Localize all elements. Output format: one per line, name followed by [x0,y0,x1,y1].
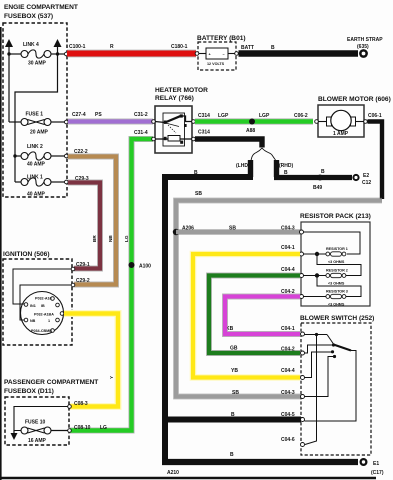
wire PS purple fuse1 to relay [68,112,153,122]
svg-text:FUSE 10: FUSE 10 [25,420,46,426]
svg-text:1 AMP: 1 AMP [333,131,349,137]
node A206 [173,226,194,236]
svg-text:RESISTOR 3: RESISTOR 3 [326,290,348,294]
passenger compartment fusebox D11 [4,379,107,445]
svg-text:<3 OHMS: <3 OHMS [328,260,345,264]
wire LGP green relay to blower motor [195,113,313,122]
svg-text:BATTERY (B01): BATTERY (B01) [197,35,246,42]
wire B relay output black [195,130,262,148]
svg-text:P032-A16: P032-A16 [35,297,52,301]
svg-text:SB: SB [195,191,202,197]
node B49 [313,175,323,192]
wire KB magenta resistor pack to blower switch [225,289,300,334]
svg-text:BR: BR [92,235,97,242]
svg-text:BATT: BATT [241,45,254,51]
ignition switch 506 [3,251,75,345]
svg-text:1: 1 [48,319,50,323]
svg-text:P032-A1BA: P032-A1BA [34,313,54,317]
fuse FUSE 1 [9,112,68,136]
feed arrow 2 [54,39,62,54]
svg-text:C31-2: C31-2 [134,112,148,118]
page bottom border [0,477,376,479]
svg-text:40 AMP: 40 AMP [27,192,46,198]
svg-text:YB: YB [231,368,238,374]
svg-text:LG: LG [124,235,129,242]
svg-text:IN1: IN1 [30,304,36,308]
svg-text:C04-3: C04-3 [281,390,295,396]
svg-text:BLOWER MOTOR (606): BLOWER MOTOR (606) [318,96,391,103]
svg-text:40 AMP: 40 AMP [27,162,46,168]
svg-text:(RHD): (RHD) [279,163,293,169]
svg-text:E1: E1 [373,461,379,467]
fusible link LINK 4 [7,42,68,67]
fusebox feed2 wire [15,54,58,182]
svg-text:PS: PS [95,112,102,118]
engine compartment fusebox S37 box [3,4,78,197]
svg-text:PASSENGER COMPARTMENT: PASSENGER COMPARTMENT [4,379,98,386]
fusible link LINK 1 [15,175,68,198]
svg-text:LGP: LGP [218,113,229,119]
svg-text:30 AMP: 30 AMP [28,61,47,67]
svg-text:A210: A210 [167,470,179,476]
wire B RHD branch to E2 [274,160,352,178]
fusible link LINK 2 [15,144,68,168]
svg-text:A100: A100 [139,264,151,270]
svg-text:LINK 2: LINK 2 [27,144,43,150]
svg-text:LINK 4: LINK 4 [23,42,39,48]
node A88 [246,119,255,135]
svg-text:RESISTOR PACK (213): RESISTOR PACK (213) [300,213,371,220]
svg-text:B: B [230,452,234,458]
svg-text:NB: NB [108,235,113,242]
svg-text:FUSEBOX (D11): FUSEBOX (D11) [4,388,54,395]
svg-text:RESISTOR 1: RESISTOR 1 [326,247,348,251]
svg-text:C08-10: C08-10 [74,425,91,431]
svg-text:BLOWER SWITCH (252): BLOWER SWITCH (252) [300,315,374,322]
LHD RHD option split [236,148,293,169]
wire Y yellow ignition to passenger fusebox [64,314,118,407]
svg-text:P034-CBMB: P034-CBMB [31,329,52,333]
feed arrow 1 [5,39,13,54]
svg-text:IGNITION (506): IGNITION (506) [3,251,50,258]
svg-text:(C17): (C17) [371,470,384,476]
wire SB gray main [176,191,382,397]
svg-text:NB: NB [30,319,36,323]
battery B01 [195,35,245,70]
svg-text:A88: A88 [246,128,255,134]
svg-text:C100-1: C100-1 [69,44,86,50]
svg-text:IB: IB [41,304,45,308]
svg-text:(635): (635) [357,44,369,50]
svg-text:C06-2: C06-2 [294,113,308,119]
blower switch 252 [281,315,374,455]
svg-text:C314: C314 [198,113,210,119]
wire B blower motor to SB run [368,122,383,200]
svg-text:20 AMP: 20 AMP [30,130,49,136]
svg-text:C06-1: C06-1 [368,113,382,119]
wire GB dark green resistor pack to blower switch [209,267,300,353]
svg-text:C04-6: C04-6 [281,437,295,443]
svg-text:RELAY (766): RELAY (766) [155,95,194,102]
svg-text:LGP: LGP [259,113,270,119]
svg-text:<3 OHMS: <3 OHMS [328,303,345,307]
svg-text:C04-4: C04-4 [281,267,295,273]
svg-text:FUSEBOX (537): FUSEBOX (537) [4,13,53,20]
ground E1 C17 ring terminal [360,458,384,476]
fusebox internal bus wire [8,54,10,122]
wire NB tan link2 to ignition [68,149,116,285]
svg-text:C12: C12 [362,180,371,186]
svg-text:FUSE 1: FUSE 1 [26,112,44,118]
svg-text:C04-4: C04-4 [281,368,295,374]
svg-text:12 VOLTS: 12 VOLTS [207,62,225,66]
node LINK2 junction [13,154,16,157]
svg-text:B49: B49 [313,185,322,191]
wire SB branch to resistor pack [176,226,301,233]
wire B LHD branch to main ground run [162,160,253,462]
wire BR maroon link1 to ignition [68,176,100,269]
svg-text:C08-3: C08-3 [74,401,88,407]
node A100 [129,262,152,270]
svg-text:LG: LG [100,425,107,431]
ground E2 C12 ring terminal [352,173,371,186]
page left border [0,27,2,480]
resistor pack 213 [300,213,371,307]
earth strap G35 ring terminal [347,37,383,58]
svg-text:B: B [321,169,325,175]
svg-text:C31-4: C31-4 [134,130,148,136]
svg-text:SB: SB [232,390,239,396]
svg-text:16 AMP: 16 AMP [28,438,47,444]
svg-text:R: R [110,44,114,50]
svg-text:C180-1: C180-1 [171,44,188,50]
wire SB label at blower switch [232,390,295,396]
heater motor relay 766 [152,87,208,153]
svg-text:C27-4: C27-4 [72,112,86,118]
svg-text:+: + [209,53,211,57]
svg-text:EARTH STRAP: EARTH STRAP [347,37,383,43]
svg-text:ENGIE COMPARTMENT: ENGIE COMPARTMENT [4,4,78,11]
wire R red battery feed [67,44,196,54]
svg-text:C04-1: C04-1 [281,245,295,251]
svg-text:HEATER MOTOR: HEATER MOTOR [155,87,208,94]
svg-text:<3 OHMS: <3 OHMS [328,282,345,286]
svg-text:E2: E2 [363,173,369,179]
wire B battery to earth strap [239,45,359,54]
wire LG green vertical from passenger fusebox to relay [70,130,153,431]
svg-text:C314: C314 [198,130,210,136]
svg-text:RESISTOR 2: RESISTOR 2 [326,269,348,273]
svg-text:B: B [271,45,275,51]
blower motor 606 [294,96,391,137]
svg-text:−: − [223,53,225,57]
wire B blower switch C04-5 [163,412,301,420]
wire B main ground run bottom to E1 [162,452,358,476]
wire YB yellow resistor pack to blower switch [193,245,300,378]
